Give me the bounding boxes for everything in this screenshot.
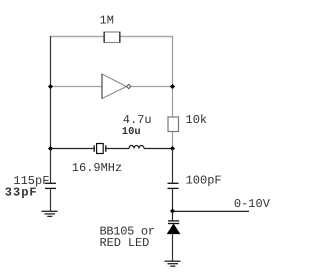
resistor 1M — [104, 32, 120, 43]
wire inductor to rail — [144, 148, 173, 150]
wire inverter input — [50, 86, 102, 88]
node output junction — [170, 84, 175, 89]
wire top feedback right segment — [120, 36, 173, 38]
resistor 10k — [168, 117, 179, 132]
wire left rail — [50, 36, 52, 183]
svg-text:33pF: 33pF — [5, 186, 38, 200]
inductor 4.7u/10u — [129, 146, 144, 149]
wire top feedback left segment — [50, 36, 104, 38]
wire right rail mid — [172, 132, 174, 149]
svg-text:10k: 10k — [186, 113, 208, 127]
wire cap to ground left — [50, 188, 52, 211]
op-amp inverter U1 — [102, 74, 127, 99]
wire right rail upper — [172, 36, 174, 117]
svg-text:1M: 1M — [100, 14, 114, 28]
svg-text:10u: 10u — [122, 126, 141, 138]
node inductor junction — [170, 146, 175, 151]
node control junction — [170, 208, 175, 213]
ground left — [42, 210, 58, 212]
svg-text:RED LED: RED LED — [100, 236, 150, 250]
ground right — [165, 260, 181, 262]
wire crystal left — [50, 148, 94, 150]
wire varactor to ground — [172, 234, 174, 261]
wire cap to varactor — [172, 188, 174, 220]
capacitor 115pF/33pF — [45, 182, 56, 184]
capacitor 100pF — [168, 182, 179, 184]
wire control 0-10V — [173, 210, 250, 212]
node input junction — [48, 84, 53, 89]
svg-text:100pF: 100pF — [186, 174, 222, 188]
node crystal-left junction — [48, 146, 53, 151]
wire right rail lower — [172, 149, 174, 184]
diode BB105 varactor — [168, 220, 179, 222]
wire inverter output — [131, 86, 173, 88]
svg-text:16.9MHz: 16.9MHz — [72, 161, 122, 175]
svg-text:0-10V: 0-10V — [234, 197, 271, 211]
crystal 16.9MHz — [93, 145, 95, 152]
wire crystal to inductor — [107, 148, 130, 150]
